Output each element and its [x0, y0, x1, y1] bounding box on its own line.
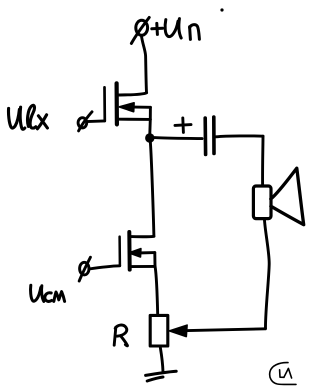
transistor Q1 drain	[119, 93, 147, 95]
transistor Q2 bulk wire with arrow	[129, 249, 155, 257]
wire speaker down	[264, 219, 269, 329]
wire source to node	[148, 119, 151, 134]
terminal Ucm	[79, 257, 90, 281]
input terminal Uvx	[78, 112, 92, 131]
wire node down to Q2 drain	[150, 143, 154, 237]
speaker LS1 body	[253, 186, 271, 219]
label + polarity	[175, 118, 191, 132]
transistor Q1 gate wire	[87, 119, 105, 123]
transistor Q2 source	[131, 265, 155, 268]
wire bottom to wiper arrow	[169, 325, 265, 337]
wire Q2 source down to resistor	[155, 267, 158, 316]
label Uvx	[9, 105, 48, 129]
stray dot	[220, 8, 223, 11]
transistor Q1 gate bar	[103, 87, 106, 121]
label +Un	[152, 19, 200, 40]
power terminal +Un	[131, 18, 149, 44]
wire resistor to ground	[160, 348, 163, 372]
resistor R body (potentiometer)	[150, 315, 168, 346]
capacitor C1	[205, 117, 214, 155]
ground	[146, 371, 177, 381]
wire node to capacitor	[155, 138, 203, 139]
wire capacitor to corner	[216, 134, 263, 138]
transistor Q2 gate bar	[118, 237, 121, 266]
label Ucm	[31, 285, 65, 301]
transistor Q1 bulk-source tie	[149, 107, 152, 119]
transistor Q2 channel	[127, 232, 131, 270]
transistor Q1 source	[119, 118, 150, 121]
transistor Q1 channel	[114, 83, 119, 124]
node A junction dot	[145, 133, 154, 142]
transistor Q2 bulk-source tie	[153, 253, 156, 267]
transistor Q2 gate wire	[89, 266, 120, 269]
label R	[114, 325, 127, 346]
wire power to drain	[141, 35, 146, 92]
speaker LS1 horn	[271, 168, 304, 225]
transistor Q2 drain	[131, 235, 154, 238]
signature mark	[270, 363, 296, 385]
transistor Q1 bulk wire with arrow	[120, 103, 151, 112]
wire corner down to speaker	[261, 136, 264, 186]
